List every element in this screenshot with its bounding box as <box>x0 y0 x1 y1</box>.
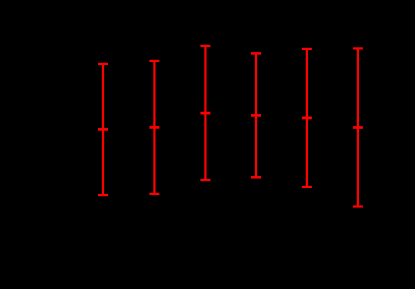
error bar 6 stem <box>357 48 359 206</box>
error bar 4 bottom cap <box>251 176 261 179</box>
error bar 5 top cap <box>302 48 312 50</box>
error bar 4 stem <box>255 53 257 177</box>
error bar 5 stem <box>306 49 308 187</box>
error bar 6 top cap <box>353 47 363 49</box>
error bar 2 stem <box>153 61 155 194</box>
error bar 3 bottom cap <box>200 179 210 181</box>
error bar 2 bottom cap <box>149 193 159 195</box>
error bar 4 mean tick <box>251 114 261 117</box>
error bar 6 mean tick <box>353 126 363 129</box>
error bar 2 top cap <box>149 60 159 62</box>
error bar 3 mean tick <box>200 112 210 115</box>
error bar 3 stem <box>204 46 206 180</box>
error bar 6 bottom cap <box>353 205 363 207</box>
error bar 4 top cap <box>251 52 261 55</box>
error bar 1 top cap <box>98 63 108 65</box>
error bar 5 bottom cap <box>302 186 312 188</box>
error bar 3 top cap <box>200 45 210 47</box>
error bar 1 bottom cap <box>98 194 108 196</box>
error bar 1 stem <box>102 64 104 195</box>
error bar 2 mean tick <box>149 126 159 129</box>
error bar 5 mean tick <box>302 117 312 120</box>
error bar 1 mean tick <box>98 128 108 131</box>
